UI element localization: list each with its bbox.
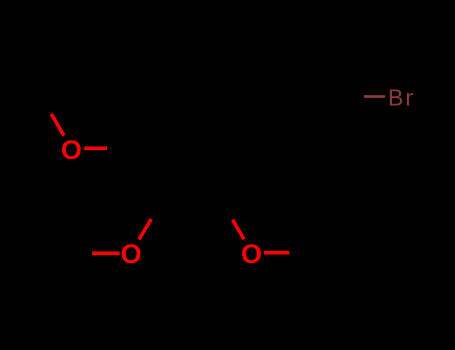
bond O2-CH3 (red half, horizontal, bottom-left methoxy) [92,252,120,256]
bond CH2-Br (dark red half, horizontal) [364,95,385,98]
bond O1-CH3 (red half, upper-left methoxy) [51,114,64,136]
bond O3-C3(ring) (red half, diagonal) [233,220,244,240]
svg-text:O: O [241,239,262,269]
bond O1-C1(ring) (red half, horizontal) [84,147,107,151]
bond O2-C2(ring) (red half, diagonal) [139,219,151,239]
svg-text:B: B [388,85,404,111]
svg-text:O: O [121,239,142,269]
svg-text:O: O [61,135,82,165]
svg-text:r: r [405,85,413,111]
bond O3-CH3 (red half, horizontal, bottom-right methoxy) [264,251,290,255]
